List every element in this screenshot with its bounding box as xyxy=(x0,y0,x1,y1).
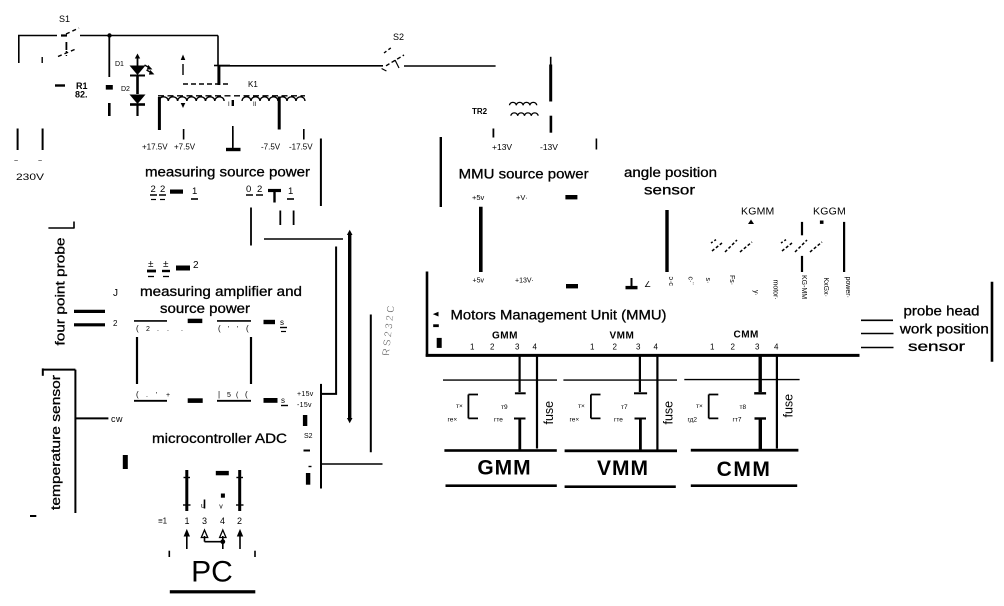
bus wire B vertical xyxy=(348,233,351,419)
pin dash xyxy=(565,195,577,199)
svg-text:82.: 82. xyxy=(75,90,88,100)
MMU box xyxy=(426,272,429,357)
MMU source power right tick xyxy=(595,139,597,150)
arrow down secondary tap xyxy=(181,103,186,108)
mcu side dash xyxy=(304,450,311,452)
svg-text:(: ( xyxy=(136,390,139,399)
transformer TR2 windings xyxy=(510,102,539,115)
svg-text:1: 1 xyxy=(288,186,293,197)
wire secondary center xyxy=(232,100,234,147)
svg-text:+5v: +5v xyxy=(472,193,485,202)
wire GMM pin3 xyxy=(518,356,520,393)
bus wire A xyxy=(264,238,343,240)
wire S2 to right xyxy=(404,65,496,67)
svg-text:+: + xyxy=(166,392,170,399)
svg-text:ге×: ге× xyxy=(448,417,458,424)
wire to transformer primary xyxy=(214,36,230,86)
svg-text:S2: S2 xyxy=(393,32,404,42)
amplifier right pin s xyxy=(264,318,288,332)
svg-text:±: ± xyxy=(148,259,154,270)
wire TR2 secondary left xyxy=(492,129,494,138)
wire +5V down to MMU xyxy=(479,207,483,272)
svg-text:+7.5V: +7.5V xyxy=(174,143,196,152)
svg-text:TR2: TR2 xyxy=(472,107,488,116)
ground MMU xyxy=(626,278,638,288)
svg-text:2: 2 xyxy=(146,326,150,333)
svg-text:2: 2 xyxy=(613,343,618,352)
resistor R1 xyxy=(55,81,113,100)
svg-text:angle position: angle position xyxy=(624,165,717,180)
svg-text:fuse: fuse xyxy=(782,394,796,418)
amplifier box pin marks top xyxy=(136,324,249,333)
svg-text:2: 2 xyxy=(237,516,242,526)
svg-text:2: 2 xyxy=(151,184,156,195)
svg-text:гт7: гт7 xyxy=(733,417,742,424)
PC interface bold dash xyxy=(216,471,229,475)
svg-text:s: s xyxy=(281,396,285,405)
svg-text:power·: power· xyxy=(844,277,851,298)
svg-text:MMU source power: MMU source power xyxy=(459,166,589,182)
mcu side pin tick1 xyxy=(303,415,307,426)
svg-text:гте: гте xyxy=(494,417,503,424)
svg-text:probe head: probe head xyxy=(904,304,980,319)
mcu side tick3 xyxy=(306,473,310,485)
ground measuring xyxy=(226,130,241,150)
svg-text:measuring source power: measuring source power xyxy=(145,165,311,180)
svg-text:3: 3 xyxy=(202,516,207,526)
wire VMM pin4 xyxy=(656,356,658,450)
svg-text:т8: т8 xyxy=(740,404,747,411)
four point probe box xyxy=(48,222,74,229)
wire secondary +7.5V xyxy=(183,129,185,140)
svg-text:.: . xyxy=(181,326,183,333)
PC box corner ticks xyxy=(169,551,255,557)
svg-text:Motors Management Unit (MMU): Motors Management Unit (MMU) xyxy=(451,308,667,323)
wire TR2 primary xyxy=(550,57,552,102)
svg-text:s: s xyxy=(280,318,284,327)
bus wire D vertical xyxy=(320,384,322,489)
PC interface wire 4 xyxy=(236,470,244,511)
CMM module xyxy=(684,380,799,487)
switch S1 pole 2 xyxy=(42,42,77,63)
svg-text:VMM: VMM xyxy=(597,457,649,480)
svg-text:.: . xyxy=(157,326,159,333)
transformer TR1 primary winding xyxy=(183,64,231,84)
svg-text:+5v: +5v xyxy=(473,278,485,285)
wire secondary -17.5V xyxy=(303,129,305,140)
wire TR2 secondary right xyxy=(550,116,553,133)
svg-text:.: . xyxy=(146,392,148,399)
svg-text:s·: s· xyxy=(704,278,711,284)
bus wire E vertical xyxy=(370,315,372,453)
relay KGGM contacts xyxy=(781,239,822,252)
svg-text:S2: S2 xyxy=(304,433,313,440)
svg-text:≡1: ≡1 xyxy=(158,517,168,526)
GMM module xyxy=(443,380,557,487)
svg-text:~: ~ xyxy=(38,158,42,165)
svg-text:': ' xyxy=(156,392,157,399)
svg-text:~: ~ xyxy=(14,158,18,165)
wire temperature sensor xyxy=(75,417,108,419)
temperature sensor box xyxy=(30,368,75,516)
PC interface wire 2 xyxy=(201,500,205,511)
svg-text:2: 2 xyxy=(160,184,165,195)
amplifier dashed box top xyxy=(134,319,251,323)
MMU source power left edge xyxy=(440,137,442,207)
MMU rotated pin labels xyxy=(667,275,851,300)
svg-text:four point probe: four point probe xyxy=(53,238,68,346)
svg-text:motor·: motor· xyxy=(772,280,779,300)
wire KGMM down xyxy=(801,222,803,272)
svg-text:+13V: +13V xyxy=(492,142,512,152)
svg-text:(: ( xyxy=(246,324,249,333)
svg-text:1: 1 xyxy=(192,186,197,197)
wire top to S2 xyxy=(218,65,383,67)
svg-text:230V: 230V xyxy=(16,172,45,183)
svg-text:2: 2 xyxy=(490,343,495,352)
MMU left bar xyxy=(437,338,442,348)
relay KGGM dot xyxy=(820,221,824,224)
svg-text:(: ( xyxy=(245,390,248,399)
amplifier box left edge xyxy=(136,337,138,384)
wire right edge xyxy=(991,282,994,362)
svg-text:y·: y· xyxy=(752,290,759,296)
PC interface wire 1 xyxy=(183,470,191,511)
wire right edge measuring source power xyxy=(320,139,322,207)
svg-text:D1: D1 xyxy=(115,61,124,68)
svg-text:+V·: +V· xyxy=(516,193,528,202)
PC underline xyxy=(170,590,256,593)
relay KGMM contacts xyxy=(711,239,752,252)
wire probe head 3 xyxy=(861,347,894,349)
svg-text:KG-MM: KG-MM xyxy=(800,275,807,299)
svg-text:J: J xyxy=(113,288,118,299)
wire KGGM down xyxy=(843,222,845,272)
svg-text:sensor: sensor xyxy=(908,339,966,354)
svg-text:v: v xyxy=(219,504,223,511)
svg-text:+15v: +15v xyxy=(297,391,314,398)
svg-text:D2: D2 xyxy=(121,86,130,93)
svg-text:3: 3 xyxy=(755,343,760,352)
wire probe b xyxy=(74,323,105,326)
svg-text:гте: гте xyxy=(614,417,623,424)
svg-text:т×: т× xyxy=(696,403,703,410)
svg-text:II: II xyxy=(253,102,257,108)
wire branch down from junction xyxy=(108,36,110,117)
svg-text:source power: source power xyxy=(160,301,251,316)
svg-text:1: 1 xyxy=(710,343,715,352)
wire CMM pin4 xyxy=(776,356,778,449)
connector pins above amplifier xyxy=(147,259,199,277)
svg-text:KGGM: KGGM xyxy=(813,206,846,218)
switch S1 pole 1 xyxy=(61,28,79,36)
bus wire F horizontal xyxy=(321,463,383,465)
svg-text:ɔ·c: ɔ·c xyxy=(667,277,674,287)
svg-text:.: . xyxy=(167,326,169,333)
PC arrow 3 xyxy=(201,530,207,542)
svg-text:Fs·: Fs· xyxy=(728,275,735,285)
wire probe head 1 xyxy=(861,319,893,321)
svg-text:4: 4 xyxy=(774,343,779,352)
svg-text:2: 2 xyxy=(731,343,736,352)
svg-text:ге×: ге× xyxy=(570,417,580,424)
svg-text:4: 4 xyxy=(533,343,538,352)
svg-text:|: | xyxy=(218,390,220,399)
svg-text:fuse: fuse xyxy=(662,401,676,425)
svg-text:2: 2 xyxy=(113,319,118,328)
wire pin stub c xyxy=(293,211,295,226)
AC source 230V xyxy=(14,129,45,184)
PC arrow 1 xyxy=(184,529,190,549)
transformer TR1 secondary windings xyxy=(159,97,305,101)
wire secondary -7.5V xyxy=(278,97,281,130)
svg-text:∠: ∠ xyxy=(644,280,651,289)
bus wire B arrowhead xyxy=(347,230,353,235)
svg-text:KxGx·: KxGx· xyxy=(822,278,829,297)
switch S2 xyxy=(382,47,404,71)
PC arrows link wire xyxy=(205,539,226,544)
svg-text:3: 3 xyxy=(636,343,641,352)
svg-text:3: 3 xyxy=(515,343,520,352)
svg-text:т×: т× xyxy=(578,403,585,410)
connector pins left group xyxy=(150,184,198,200)
wire CMM pin3 xyxy=(759,356,762,393)
amplifier box pin marks bottom xyxy=(136,390,248,399)
svg-text:sensor: sensor xyxy=(644,183,696,198)
svg-text:CMM: CMM xyxy=(717,458,772,481)
svg-text:c·¨: c·¨ xyxy=(687,277,694,286)
MMU left dash xyxy=(433,324,439,327)
svg-text:2: 2 xyxy=(257,184,262,195)
svg-text:т×: т× xyxy=(456,403,463,410)
svg-text:1: 1 xyxy=(590,343,595,352)
svg-text:VMM: VMM xyxy=(610,331,635,342)
connector tick xyxy=(123,455,128,469)
svg-text:measuring amplifier and: measuring amplifier and xyxy=(140,284,302,299)
svg-text:GMM: GMM xyxy=(477,457,531,480)
wire probe a xyxy=(74,310,105,313)
svg-text:': ' xyxy=(228,326,229,333)
MMU left arrow xyxy=(433,312,439,317)
svg-text:+13V·: +13V· xyxy=(515,278,534,285)
PC interface wire 3 xyxy=(219,494,225,511)
arrow up primary xyxy=(181,55,186,61)
svg-text:гд2: гд2 xyxy=(688,417,698,424)
node junction top xyxy=(107,33,111,37)
relay KGMM arrow xyxy=(748,220,754,225)
amplifier dashed box bottom xyxy=(134,398,251,403)
wire secondary +17.5V xyxy=(158,97,161,130)
svg-text:-17.5V: -17.5V xyxy=(289,143,313,152)
wire pin stub b xyxy=(279,211,281,226)
svg-text:GMM: GMM xyxy=(492,331,518,342)
amplifier right pin power xyxy=(264,391,314,409)
connector pins right group xyxy=(246,184,294,203)
svg-text:1: 1 xyxy=(185,516,190,526)
transformer TR1 core xyxy=(158,95,305,97)
svg-text:temperature sensor: temperature sensor xyxy=(48,374,63,510)
svg-text:fuse: fuse xyxy=(542,401,556,425)
bus wire C vertical xyxy=(322,247,336,394)
VMM module xyxy=(563,380,677,488)
amplifier box right edge xyxy=(250,337,252,384)
svg-text:u: u xyxy=(201,503,205,510)
mcu side tick2 xyxy=(309,466,312,468)
svg-text:-7.5V: -7.5V xyxy=(261,143,281,152)
wire mains top left xyxy=(18,35,218,63)
switch S1 label xyxy=(59,14,70,24)
LED D1 xyxy=(115,54,154,95)
svg-text:work position: work position xyxy=(899,322,989,337)
svg-text:1: 1 xyxy=(470,343,475,352)
svg-text:±: ± xyxy=(163,259,169,270)
svg-text:0: 0 xyxy=(246,184,251,195)
svg-text:-13V: -13V xyxy=(540,142,558,152)
wire probe head 2 xyxy=(861,333,894,335)
diode D2 xyxy=(121,86,146,116)
svg-text:4: 4 xyxy=(654,343,659,352)
svg-text:K1: K1 xyxy=(248,80,258,89)
svg-text:microcontroller ADC: microcontroller ADC xyxy=(152,431,287,446)
wire VMM pin3 xyxy=(639,356,641,393)
svg-text:т9: т9 xyxy=(501,404,508,411)
svg-text:KGMM: KGMM xyxy=(741,206,774,218)
svg-text:т7: т7 xyxy=(621,404,628,411)
svg-text:S1: S1 xyxy=(59,14,70,24)
wire angle sensor down xyxy=(665,210,668,272)
svg-text:CMM: CMM xyxy=(734,330,759,341)
svg-text:': ' xyxy=(237,326,238,333)
PC arrow 4 xyxy=(220,530,226,549)
svg-text:5: 5 xyxy=(227,392,231,399)
svg-text:-15v: -15v xyxy=(297,402,312,409)
svg-text:2: 2 xyxy=(193,260,199,271)
svg-text:(: ( xyxy=(136,324,139,333)
MMU pin dash xyxy=(566,284,578,288)
PC arrow 2 xyxy=(237,529,243,549)
svg-text:(: ( xyxy=(218,324,221,333)
svg-text:cw: cw xyxy=(111,414,123,424)
svg-text:PC: PC xyxy=(191,556,233,589)
svg-text:4: 4 xyxy=(220,516,225,526)
svg-text:+17.5V: +17.5V xyxy=(142,143,168,152)
wire pin stub a xyxy=(250,208,252,246)
wire GMM pin4 xyxy=(536,356,538,449)
